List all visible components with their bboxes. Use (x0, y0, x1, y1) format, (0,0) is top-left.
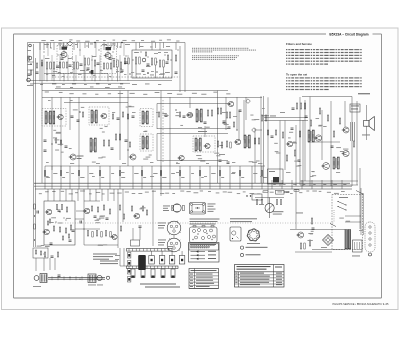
svg-text:To open the set: To open the set (286, 72, 307, 76)
svg-text:B5X23A – Circuit Diagram: B5X23A – Circuit Diagram (329, 32, 368, 36)
svg-text:PHILIPS SERVICE • B5X23A SCHEM: PHILIPS SERVICE • B5X23A SCHEMATIC 9–65 (332, 302, 389, 306)
svg-text:Fitters and Service: Fitters and Service (286, 42, 312, 46)
